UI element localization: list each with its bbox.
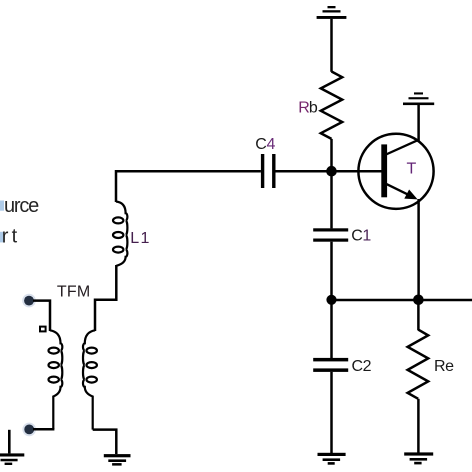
- wire: TFM secondary bottom to ground: [93, 430, 117, 454]
- wire: base node down to C1: [330, 171, 333, 228]
- wire: collector to top-right rail: [417, 105, 420, 141]
- transformer TFM secondary loops: [87, 348, 97, 383]
- wire: top rail to Rb: [330, 19, 333, 72]
- wire: emitter to mid node: [417, 199, 420, 300]
- inductor L1 coil: [116, 202, 127, 266]
- wire: Rb to base node: [330, 139, 333, 172]
- ground symbol under TFM secondary: [104, 454, 131, 466]
- capacitor C4: [261, 154, 276, 188]
- wire: mid node to C2: [330, 300, 333, 358]
- wire: C4 right plate to transistor base: [276, 170, 382, 173]
- transformer TFM primary winding (left): [50, 330, 62, 429]
- svg-text:C1: C1: [351, 227, 371, 244]
- node dot mid-right: [413, 295, 424, 306]
- svg-text:L1: L1: [130, 230, 151, 247]
- mid rail horizontal wire: [332, 299, 472, 302]
- wire: L1 bottom to TFM secondary top: [95, 265, 116, 331]
- transistor base bar: [381, 144, 387, 197]
- clipped caption text "Port": [0, 232, 4, 243]
- ground symbol under Re: [404, 452, 433, 464]
- svg-text:Re: Re: [434, 358, 454, 375]
- capacitor C2: [313, 358, 348, 372]
- transistor collector diagonal: [386, 140, 419, 155]
- wire: C2 to bottom ground: [330, 372, 333, 453]
- wire: C1 to mid node: [330, 242, 333, 300]
- svg-text:C2: C2: [352, 358, 372, 375]
- wire: top terminal to TFM primary: [33, 301, 50, 331]
- wire: bottom terminal to TFM primary bottom: [33, 428, 54, 431]
- svg-text:C4: C4: [255, 136, 275, 153]
- svg-text:T: T: [407, 160, 417, 177]
- resistor Rb: [321, 72, 342, 139]
- svg-text:Rb: Rb: [298, 99, 318, 116]
- port terminal dot top: [22, 294, 36, 308]
- wire: mid node to Re: [417, 300, 420, 330]
- transistor emitter diagonal: [386, 184, 410, 196]
- ground symbol at left edge (clipped): [8, 430, 11, 454]
- svg-text:urce: urce: [4, 195, 39, 217]
- svg-text:rt: rt: [2, 225, 21, 247]
- power rail ground symbol top-left (inverted): [317, 6, 347, 19]
- power rail ground symbol top-right (inverted): [403, 92, 434, 105]
- ground symbol under C2: [318, 453, 346, 465]
- transformer TFM secondary winding (right): [83, 330, 95, 429]
- wire: L1 top to C4 left plate: [116, 171, 261, 202]
- node dot mid-left: [326, 295, 336, 305]
- transistor T body circle: [358, 134, 433, 209]
- inductor L1 loops: [113, 217, 123, 252]
- transformer TFM primary loops: [49, 348, 59, 383]
- resistor Re: [408, 330, 429, 399]
- capacitor C1: [313, 228, 348, 241]
- clipped caption text "Source": [0, 201, 4, 211]
- port terminal dot bottom: [22, 423, 36, 437]
- svg-text:TFM: TFM: [57, 284, 90, 301]
- transistor emitter arrowhead: [404, 190, 417, 200]
- wire: Re to bottom ground: [417, 399, 420, 453]
- transformer TFM phase square marker: [40, 327, 46, 332]
- node dot at base junction: [326, 166, 337, 177]
